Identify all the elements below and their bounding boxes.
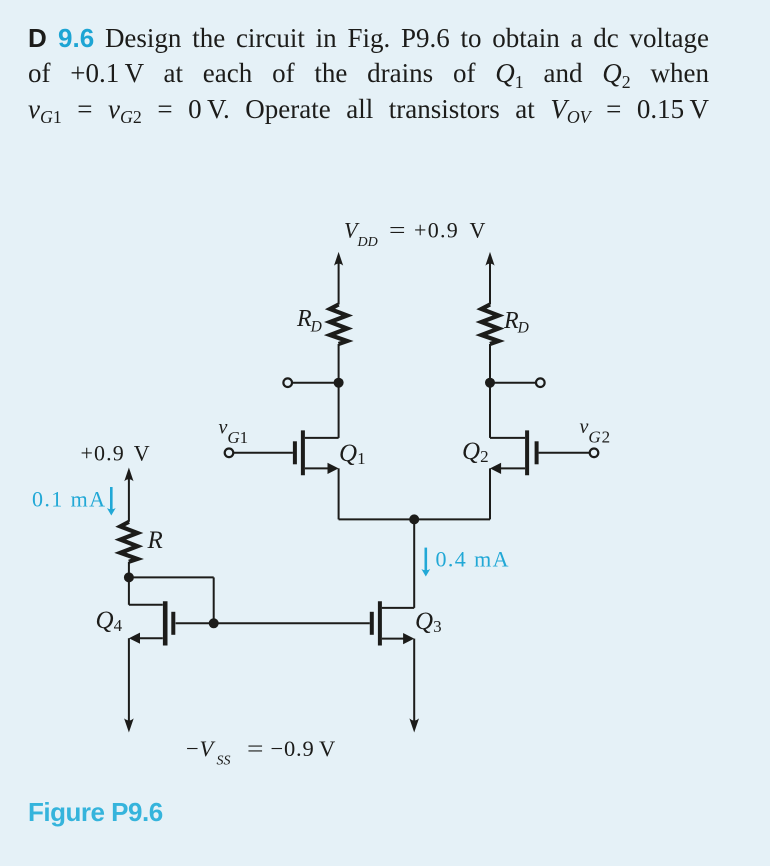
svg-text:RD: RD <box>503 308 529 337</box>
svg-text:Q4: Q4 <box>96 607 123 635</box>
svg-text:V: V <box>319 736 335 761</box>
svg-text:−0.9: −0.9 <box>271 736 315 761</box>
svg-text:R: R <box>147 527 163 554</box>
svg-text:Q2: Q2 <box>462 438 489 466</box>
svg-text:0.4 mA: 0.4 mA <box>436 547 510 572</box>
svg-text:Q3: Q3 <box>415 608 442 636</box>
svg-text:V: V <box>470 218 486 243</box>
svg-text:Q1: Q1 <box>339 440 366 468</box>
svg-text:=: = <box>247 736 264 761</box>
svg-text:0.1 mA: 0.1 mA <box>32 487 106 512</box>
svg-text:−: − <box>186 736 199 761</box>
svg-text:vG1: vG1 <box>219 417 249 448</box>
svg-text:=: = <box>389 218 406 243</box>
svg-text:+0.9: +0.9 <box>414 218 459 243</box>
svg-text:DD: DD <box>357 235 378 250</box>
svg-text:SS: SS <box>217 753 231 768</box>
svg-text:RD: RD <box>296 306 322 336</box>
svg-text:V: V <box>134 441 150 466</box>
svg-text:vG2: vG2 <box>580 416 611 447</box>
svg-text:V: V <box>200 736 216 761</box>
svg-text:+0.9: +0.9 <box>81 441 125 466</box>
